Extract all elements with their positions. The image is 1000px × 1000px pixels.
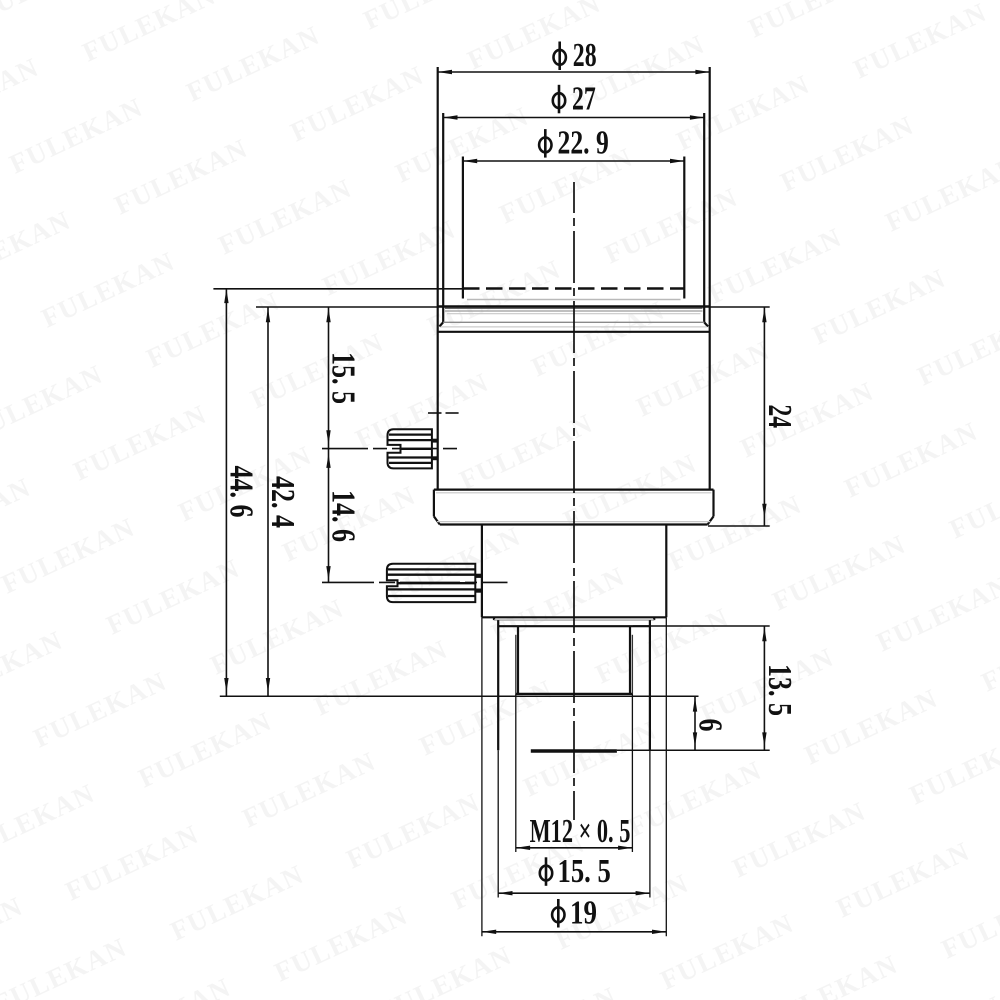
- svg-text:15. 5: 15. 5: [558, 853, 611, 890]
- flange wall left: [433, 490, 435, 517]
- step ring gray line: [494, 619, 654, 621]
- phi19 cylinder wall left: [481, 525, 483, 618]
- cap bore floor: [467, 299, 681, 301]
- cap-body seam line 2: [445, 310, 703, 312]
- flange inner shadow bottom: [437, 521, 710, 523]
- svg-text:42. 4: 42. 4: [264, 476, 301, 528]
- body flange top edge: [434, 489, 714, 491]
- long extension line bottom (44.6/42.4 bottom + 6 top): [220, 695, 699, 697]
- step ring vertical right: [653, 617, 655, 620]
- phi19 cylinder wall right: [665, 525, 667, 618]
- dim phi27 line: [443, 117, 704, 119]
- body top edge: [438, 331, 710, 333]
- svg-text:27: 27: [572, 80, 596, 117]
- M12 extension left: [515, 694, 517, 852]
- dim 44.6 line: [225, 289, 227, 697]
- cap-body seam line 1: [445, 307, 703, 309]
- svg-text:15. 5: 15. 5: [325, 352, 362, 404]
- phi19 extension right: [665, 617, 667, 936]
- left extension line 44.6 top: [213, 288, 463, 290]
- cap outer wall left (phi28): [437, 67, 439, 490]
- neck ring faint line: [441, 326, 707, 328]
- cap phi27 wall left: [442, 113, 444, 322]
- thread bore floor: [516, 693, 633, 695]
- neck ring line: [443, 321, 704, 323]
- label phi15.5: [540, 857, 552, 886]
- cap bottom edge: [438, 305, 710, 307]
- cap phi27 wall right: [703, 113, 705, 322]
- vertical center line: [573, 182, 575, 820]
- dim phi15.5 line: [498, 892, 650, 894]
- upper hidden axis tick: [428, 412, 459, 414]
- svg-text:13. 5: 13. 5: [761, 664, 798, 716]
- M12 extension right: [631, 694, 633, 852]
- dim 13.5 line: [763, 626, 765, 750]
- right extension line 24 bottom: [708, 525, 770, 527]
- dim 42.4 line: [267, 307, 269, 696]
- flange chamfer right: [708, 516, 714, 524]
- dim 15.5 line: [328, 307, 330, 449]
- phi19 extension left: [481, 617, 483, 936]
- dim phi19 line: [482, 931, 666, 933]
- long extension line mid (42.4/15.5 top + cap bottom + 24 top): [256, 306, 770, 308]
- thumbscrew S2 axis line: [322, 581, 508, 583]
- thread section top edge: [499, 625, 650, 627]
- svg-text:14. 6: 14. 6: [325, 490, 362, 542]
- bottom glass element thick bar: [531, 749, 617, 752]
- phi15.5 wall left: [497, 620, 499, 750]
- label phi22.9: [539, 129, 551, 158]
- label phi19: [552, 899, 564, 928]
- svg-text:6: 6: [692, 719, 729, 732]
- step ring vertical left: [493, 617, 495, 620]
- thumbscrew S1 axis line: [322, 448, 461, 450]
- extension line bottom face: [617, 749, 770, 751]
- phi19 cylinder bottom edge: [482, 616, 666, 618]
- svg-text:44. 6: 44. 6: [222, 466, 259, 518]
- cap outer wall right (phi28): [709, 67, 711, 490]
- dim 6 line: [694, 696, 696, 750]
- cap phi27 chamfer right: [704, 322, 708, 326]
- dim 14.6 line: [328, 449, 330, 583]
- M12 thread root line left: [515, 635, 517, 694]
- cap bore wall left (phi22.9): [462, 157, 464, 299]
- dim M12 line: [516, 847, 633, 849]
- flange chamfer left: [434, 516, 440, 524]
- flange inner shadow top: [436, 492, 711, 494]
- phi15.5 extension right: [649, 750, 651, 897]
- thumbscrew S1 upper: [388, 429, 439, 468]
- flange bottom edge: [440, 523, 708, 525]
- extension line 13.5 top: [633, 625, 770, 627]
- cap-body seam line 3: [447, 313, 701, 315]
- cap bore wall right (phi22.9): [683, 157, 685, 299]
- M12 thread wall right: [629, 627, 631, 694]
- svg-text:19: 19: [570, 895, 597, 932]
- thumbscrew S2 lower: [387, 564, 482, 602]
- dim phi28 line: [438, 71, 710, 73]
- flange wall right: [712, 490, 714, 517]
- phi15.5 extension left: [497, 750, 499, 897]
- label phi28: [554, 42, 566, 71]
- M12 thread wall left: [517, 627, 519, 694]
- cap bore hidden edge dashed: [463, 287, 685, 290]
- svg-text:22. 9: 22. 9: [558, 125, 609, 162]
- svg-text:M12 × 0. 5: M12 × 0. 5: [530, 813, 631, 850]
- dim phi22.9 line: [463, 160, 684, 162]
- svg-text:24: 24: [761, 404, 798, 428]
- dim 24 line: [763, 307, 765, 526]
- M12 thread root line right: [631, 635, 633, 694]
- phi15.5 wall right: [649, 620, 651, 750]
- cap phi27 chamfer left: [439, 322, 443, 326]
- svg-text:28: 28: [573, 37, 597, 74]
- label phi27: [553, 85, 565, 114]
